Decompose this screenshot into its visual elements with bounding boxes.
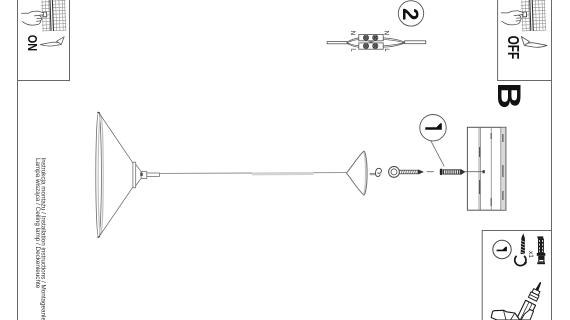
canopy cone (small, on cord)	[346, 151, 364, 195]
drill trigger grip	[521, 310, 534, 320]
eye screw shaft with threads	[399, 170, 423, 174]
drill handle block	[491, 310, 520, 320]
left wires to terminal	[347, 38, 359, 47]
step number 1 circle (exploded view)	[420, 115, 446, 141]
hand pressing switch (OFF)	[501, 11, 523, 25]
drill body	[516, 300, 535, 320]
cord end hook	[376, 168, 382, 176]
right wires from terminal	[383, 38, 405, 47]
svg-text:ON: ON	[25, 35, 40, 51]
right cable	[405, 41, 426, 44]
cone top edge	[100, 114, 133, 163]
svg-text:L: L	[383, 48, 389, 52]
page left border	[17, 0, 19, 320]
cord end stem	[370, 173, 376, 175]
rim top nub	[97, 112, 100, 113]
eye screw (horizontal, exploded) : ring	[389, 167, 400, 178]
arrow OFF (curved, pointing up-left)	[521, 36, 547, 47]
lamp shade rim (big cone opening, left)	[96, 112, 102, 237]
parts eye screw (vertical)	[515, 234, 527, 266]
svg-text:2: 2	[398, 8, 423, 20]
dashed guide line	[427, 171, 434, 173]
svg-text:N: N	[382, 31, 388, 35]
terminal screws	[363, 35, 378, 49]
parts box frame (bottom-right)	[482, 231, 551, 320]
step number 1 digit	[425, 123, 442, 130]
parts step 1 digit	[497, 247, 507, 252]
arrow ON (curved, pointing up-right)	[40, 37, 64, 46]
rim bottom nub	[97, 236, 100, 237]
svg-text:N: N	[349, 31, 355, 35]
drill bit	[536, 282, 541, 291]
drill hole line into ceiling	[465, 171, 484, 173]
canopy rim	[364, 151, 367, 195]
drill chuck	[532, 289, 540, 296]
wall anchor (horizontal, exploded)	[440, 169, 465, 175]
svg-text:OFF: OFF	[505, 36, 522, 60]
svg-text:Lampa wisząca / Ceiling lamp /: Lampa wisząca / Ceiling lamp / Deckenleu…	[34, 158, 41, 289]
terminal block row L	[359, 43, 383, 49]
socket neck cone	[136, 164, 142, 185]
parts step 1 circle	[493, 240, 511, 258]
lamp cord	[159, 172, 346, 175]
shade top cap plate	[133, 162, 136, 188]
cord grip fitting	[141, 172, 147, 179]
OFF step box frame (top-right)	[498, 0, 552, 81]
brick wall with switch (OFF)	[521, 0, 546, 31]
svg-text:B: B	[491, 83, 527, 109]
terminal block row N	[359, 35, 383, 41]
cord sleeve	[147, 173, 160, 176]
cone bottom edge	[100, 187, 133, 236]
page right border	[551, 0, 553, 320]
crossing wires between rows	[369, 41, 374, 43]
ON step box frame (top-left)	[18, 0, 70, 81]
step number 2 circle	[398, 1, 423, 26]
hand pressing switch (ON)	[22, 11, 44, 25]
brick wall with switch (ON)	[41, 0, 66, 31]
svg-text:L: L	[349, 48, 355, 52]
power drill	[491, 282, 541, 320]
svg-text:x1: x1	[527, 251, 534, 258]
leader line from 1 to anchor	[431, 141, 445, 167]
parts wall anchor (vertical)	[537, 236, 546, 264]
ceiling cross-section block	[467, 127, 506, 210]
terminal block wiring: left cable	[327, 42, 347, 44]
